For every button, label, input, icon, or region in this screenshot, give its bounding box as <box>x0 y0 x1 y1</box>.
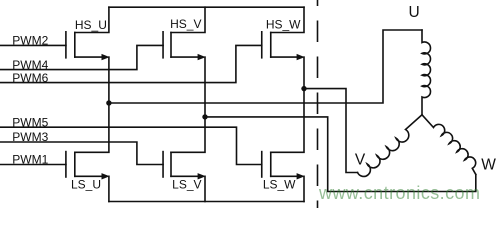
svg-text:LS_U: LS_U <box>71 178 101 192</box>
wire V phase bus to motor via bottom return <box>205 117 476 192</box>
transistor HS_V <box>163 7 206 117</box>
transistor LS_U <box>66 103 110 202</box>
transistor HS_W <box>262 7 305 88</box>
boundary dashed line <box>317 0 319 208</box>
svg-text:LS_V: LS_V <box>172 177 201 191</box>
wire U phase bus to motor <box>109 30 422 103</box>
inductor W winding <box>422 115 476 175</box>
transistor LS_W <box>262 89 305 202</box>
svg-text:PWM3: PWM3 <box>12 130 48 144</box>
svg-text:LS_W: LS_W <box>263 177 296 191</box>
wire bottom ground bus <box>109 201 304 203</box>
svg-text:HS_V: HS_V <box>170 17 201 31</box>
svg-text:PWM5: PWM5 <box>12 115 48 129</box>
wire PWM6 gate line with jog up to HS_W <box>0 45 262 82</box>
transistor HS_U <box>66 7 110 103</box>
wire PWM2 gate line <box>0 44 66 46</box>
svg-text:HS_W: HS_W <box>266 18 301 32</box>
svg-text:PWM4: PWM4 <box>12 58 48 72</box>
transistor LS_V <box>163 117 206 202</box>
svg-text:PWM1: PWM1 <box>12 153 48 167</box>
svg-text:U: U <box>408 4 419 21</box>
wire PWM5 gate line with jog down to LS_W <box>0 127 262 164</box>
svg-text:PWM6: PWM6 <box>12 71 48 85</box>
svg-text:W: W <box>481 157 496 174</box>
wire top DC rail <box>109 6 304 8</box>
svg-text:V: V <box>355 151 366 168</box>
node W phase <box>301 86 306 91</box>
wire PWM1 gate line <box>0 164 66 166</box>
svg-text:www.cntronics.com: www.cntronics.com <box>318 183 480 203</box>
wire PWM4 gate line with jog up to HS_V <box>0 45 163 69</box>
node U phase <box>106 100 111 105</box>
svg-text:PWM2: PWM2 <box>12 34 48 48</box>
inductor V winding <box>358 115 423 177</box>
wire W phase bus to motor <box>304 89 358 173</box>
inductor U winding <box>422 30 431 115</box>
wire PWM3 gate line with jog down to LS_V <box>0 142 163 165</box>
svg-text:HS_U: HS_U <box>75 18 107 32</box>
node V phase <box>202 114 207 119</box>
